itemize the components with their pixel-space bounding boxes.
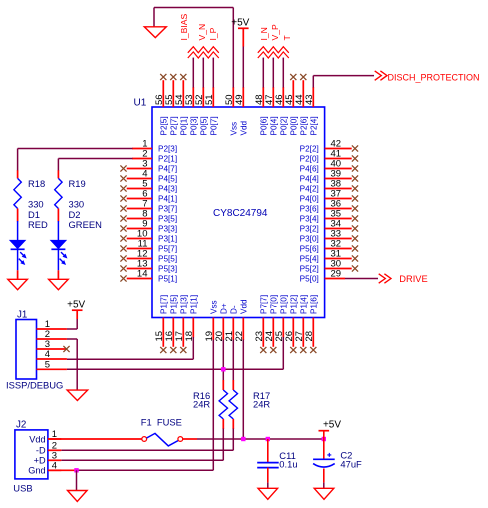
- svg-text:5: 5: [45, 360, 50, 371]
- svg-text:24R: 24R: [253, 398, 270, 409]
- svg-text:Vdd: Vdd: [240, 120, 249, 135]
- svg-text:P3[3]: P3[3]: [158, 225, 177, 234]
- svg-text:I_N: I_N: [259, 27, 269, 40]
- svg-text:R19: R19: [69, 178, 86, 189]
- svg-text:P1[7]: P1[7]: [160, 295, 169, 314]
- svg-text:P3[6]: P3[6]: [300, 205, 319, 214]
- svg-text:D-: D-: [230, 305, 239, 314]
- svg-text:P3[0]: P3[0]: [300, 235, 319, 244]
- svg-text:P1[5]: P1[5]: [170, 295, 179, 314]
- svg-text:P2[2]: P2[2]: [300, 145, 319, 154]
- svg-text:Vdd: Vdd: [29, 434, 45, 444]
- svg-text:47uF: 47uF: [340, 458, 362, 469]
- svg-text:USB: USB: [13, 483, 32, 494]
- svg-text:Gnd: Gnd: [28, 466, 45, 476]
- svg-text:P5[1]: P5[1]: [158, 275, 177, 284]
- svg-text:P3[4]: P3[4]: [300, 215, 319, 224]
- svg-text:P2[4]: P2[4]: [310, 116, 319, 135]
- svg-text:P5[7]: P5[7]: [158, 245, 177, 254]
- svg-text:P1[4]: P1[4]: [300, 295, 309, 314]
- svg-text:P2[5]: P2[5]: [160, 116, 169, 135]
- svg-text:P1[1]: P1[1]: [190, 295, 199, 314]
- svg-text:24R: 24R: [193, 398, 210, 409]
- svg-text:F1: F1: [141, 416, 152, 427]
- svg-text:P7[7]: P7[7]: [260, 295, 269, 314]
- svg-text:V_P: V_P: [270, 24, 280, 41]
- svg-text:P0[4]: P0[4]: [270, 116, 279, 135]
- svg-text:P3[2]: P3[2]: [300, 225, 319, 234]
- svg-text:P3[5]: P3[5]: [158, 215, 177, 224]
- svg-text:R18: R18: [28, 178, 45, 189]
- svg-text:DISCH_PROTECTION: DISCH_PROTECTION: [388, 73, 480, 83]
- svg-text:FUSE: FUSE: [157, 416, 182, 427]
- svg-text:CY8C24794: CY8C24794: [213, 208, 268, 219]
- svg-text:P0[0]: P0[0]: [290, 116, 299, 135]
- svg-text:P1[0]: P1[0]: [280, 295, 289, 314]
- svg-text:P1[6]: P1[6]: [310, 295, 319, 314]
- svg-text:P4[5]: P4[5]: [158, 175, 177, 184]
- svg-text:P2[7]: P2[7]: [170, 116, 179, 135]
- svg-text:P5[0]: P5[0]: [300, 275, 319, 284]
- svg-text:P4[3]: P4[3]: [158, 185, 177, 194]
- svg-text:P4[7]: P4[7]: [158, 165, 177, 174]
- svg-text:+D: +D: [34, 456, 46, 466]
- svg-text:Vdd: Vdd: [240, 299, 249, 314]
- svg-text:P2[1]: P2[1]: [158, 155, 177, 164]
- svg-text:+5V: +5V: [67, 299, 85, 310]
- svg-text:P4[1]: P4[1]: [158, 195, 177, 204]
- svg-text:P4[2]: P4[2]: [300, 185, 319, 194]
- svg-text:P0[7]: P0[7]: [210, 116, 219, 135]
- svg-text:GREEN: GREEN: [69, 219, 102, 230]
- svg-text:P4[6]: P4[6]: [300, 165, 319, 174]
- svg-text:P4[4]: P4[4]: [300, 175, 319, 184]
- svg-text:J1: J1: [17, 309, 27, 320]
- svg-text:P7[0]: P7[0]: [270, 295, 279, 314]
- svg-text:RED: RED: [28, 219, 48, 230]
- svg-text:DRIVE: DRIVE: [399, 274, 427, 284]
- svg-text:P5[4]: P5[4]: [300, 255, 319, 264]
- svg-text:D+: D+: [220, 303, 229, 314]
- svg-text:P5[3]: P5[3]: [158, 265, 177, 274]
- svg-text:+5V: +5V: [231, 17, 249, 28]
- svg-text:P0[1]: P0[1]: [180, 116, 189, 135]
- svg-text:U1: U1: [134, 98, 147, 109]
- svg-text:P5[6]: P5[6]: [300, 245, 319, 254]
- svg-text:P2[6]: P2[6]: [300, 116, 309, 135]
- svg-text:T: T: [282, 35, 292, 41]
- svg-text:P5[5]: P5[5]: [158, 255, 177, 264]
- svg-text:P0[6]: P0[6]: [260, 116, 269, 135]
- svg-text:+5V: +5V: [323, 420, 341, 431]
- svg-text:P5[2]: P5[2]: [300, 265, 319, 274]
- svg-text:P0[5]: P0[5]: [200, 116, 209, 135]
- svg-text:ISSP/DEBUG: ISSP/DEBUG: [6, 380, 63, 391]
- svg-text:I_P: I_P: [208, 27, 218, 40]
- svg-text:J2: J2: [16, 420, 26, 431]
- svg-text:P2[0]: P2[0]: [300, 155, 319, 164]
- svg-text:P3[7]: P3[7]: [158, 205, 177, 214]
- svg-text:P2[3]: P2[3]: [158, 145, 177, 154]
- svg-text:P0[2]: P0[2]: [280, 116, 289, 135]
- svg-text:P0[3]: P0[3]: [190, 116, 199, 135]
- svg-text:P1[3]: P1[3]: [180, 295, 189, 314]
- svg-text:Vss: Vss: [210, 300, 219, 314]
- svg-text:Vss: Vss: [230, 122, 239, 136]
- svg-text:I_BIAS: I_BIAS: [179, 13, 189, 40]
- svg-text:V_N: V_N: [197, 24, 207, 41]
- svg-text:P1[2]: P1[2]: [290, 295, 299, 314]
- svg-text:0.1u: 0.1u: [279, 459, 297, 470]
- svg-text:-D: -D: [36, 446, 46, 456]
- svg-text:P3[1]: P3[1]: [158, 235, 177, 244]
- svg-text:P4[0]: P4[0]: [300, 195, 319, 204]
